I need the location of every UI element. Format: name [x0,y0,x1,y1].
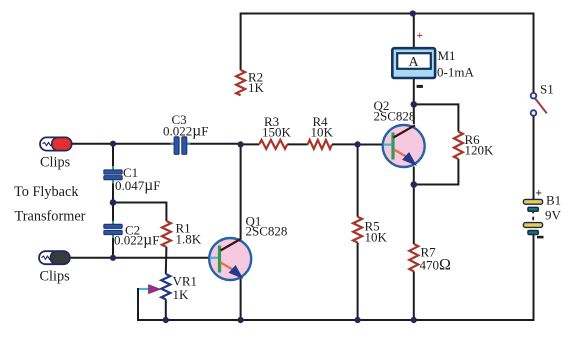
node top rail meter junction [410,10,416,16]
wire battery to bottom rail [533,235,535,322]
transistor Q1 [209,238,251,280]
wire black clip to Q1 base [69,257,210,259]
meter minus sign [417,85,423,88]
node at C1-C2 link (R1 branch) [110,199,117,206]
battery B1 [523,199,542,234]
svg-text:1.8K: 1.8K [176,232,202,247]
node at C1 top (red clip line) [110,141,116,147]
node at C2 bottom (black clip line) [110,255,116,261]
wire VR1 bottom lead [165,299,167,320]
node C3/R2/R3 junction [238,141,244,147]
node VR1 bottom rail [163,317,169,323]
svg-text:2SC828: 2SC828 [374,109,416,124]
svg-text:0-1mA: 0-1mA [437,65,474,80]
resistor R5 [353,217,362,243]
resistor R4 [308,140,332,149]
svg-text:0.047µF: 0.047µF [115,177,160,194]
wire Q2 base lead [358,144,384,146]
wire R7 top lead [413,185,415,245]
svg-text:120K: 120K [465,143,495,158]
wire R7 bottom lead [413,271,415,320]
wire R6 branch bottom [414,159,459,185]
node Q2 emitter / R6 bottom [411,181,418,188]
wire S1 to battery [533,116,535,200]
wire meter bottom lead to Q2 collector node [413,78,415,124]
meter M1 [392,48,435,78]
black clip [39,251,70,264]
red clip [40,137,72,150]
svg-text:150K: 150K [262,125,292,140]
wire top rail [241,13,534,15]
svg-text:10K: 10K [365,230,388,245]
wire Q1 emitter lead [240,278,242,320]
potentiometer VR1 wiper arrow [149,285,161,294]
resistor R2 [236,70,245,95]
svg-text:S1: S1 [540,82,554,97]
svg-text:B1: B1 [546,193,561,208]
wire R2 top lead [240,13,242,71]
resistor R1 [162,221,171,247]
svg-text:M1: M1 [438,48,456,63]
battery minus sign [537,236,544,239]
wire C1 top lead [112,144,114,170]
wire Q2 emitter lead [413,167,415,185]
svg-text:0.022µF: 0.022µF [114,232,159,249]
wire R1 top lead from C1 node [113,203,166,222]
resistor R6 [454,132,463,159]
potentiometer VR1 resistive element [161,274,170,299]
node Q2 collector / R6 top [411,101,418,108]
wire right rail upper (top rail to S1) [533,13,535,94]
capacitor C3 [171,137,191,155]
node R7 bottom rail [411,317,417,323]
wire R4 right lead [332,143,358,145]
svg-text:470Ω: 470Ω [420,257,452,274]
wire C3 to R2 node [187,143,241,145]
node R5 bottom rail [355,317,361,323]
svg-text:+: + [417,30,424,42]
wire VR1 wiper return [138,289,148,321]
wire C1-C2 link [112,180,114,224]
svg-text:Clips: Clips [40,269,71,285]
svg-text:1K: 1K [248,80,265,95]
wire bottom rail [138,319,534,321]
wire R3-R4 link [287,143,307,145]
wire meter top lead [413,14,415,49]
wire red clip to C3 [71,143,174,145]
switch S1 [531,93,547,116]
wire VR1 wiper cyan segment [139,288,149,290]
node Q1 emitter rail [238,317,244,323]
wire R3 left lead [241,143,260,145]
wire R5 top lead [357,144,359,216]
svg-text:9V: 9V [545,208,562,223]
wire Q1 collector vertical [240,144,242,239]
node R4/R5/Q2 base junction [355,141,361,147]
svg-text:0.022µF: 0.022µF [163,123,208,140]
svg-text:A: A [408,55,419,70]
wire C2 bottom lead [112,235,114,258]
capacitor C1 [104,166,122,184]
svg-text:10K: 10K [311,125,334,140]
capacitor C2 [104,221,122,238]
wire R5 bottom lead [357,243,359,321]
wire R6 branch top [414,104,459,131]
svg-text:1K: 1K [173,287,190,302]
wire R1-VR1 link [165,247,168,274]
svg-text:Transformer: Transformer [15,209,86,225]
svg-text:+: + [536,188,543,200]
svg-text:Clips: Clips [40,155,71,171]
resistor R3 [259,140,287,149]
svg-text:2SC828: 2SC828 [246,224,288,239]
transistor Q2 [383,125,425,167]
resistor R7 [409,244,418,271]
svg-text:To Flyback: To Flyback [14,184,79,200]
